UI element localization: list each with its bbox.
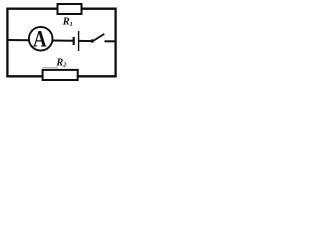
svg-text:R1: R1 <box>62 17 73 28</box>
resistor R1 <box>58 4 82 14</box>
wire switch to right rail <box>105 40 116 42</box>
switch pivot <box>91 39 94 42</box>
wire outer loop <box>7 9 115 77</box>
switch blade <box>92 34 104 42</box>
scan mark left of R2 label <box>43 67 59 69</box>
ammeter A <box>29 26 53 52</box>
battery cell positive plate <box>78 31 80 51</box>
svg-text:R2: R2 <box>55 57 66 68</box>
wire battery to switch <box>79 40 92 42</box>
svg-text:A: A <box>33 26 47 52</box>
wire middle left (left rail to battery) <box>7 39 74 42</box>
resistor R2 <box>43 70 78 80</box>
battery cell negative plate <box>73 37 75 45</box>
